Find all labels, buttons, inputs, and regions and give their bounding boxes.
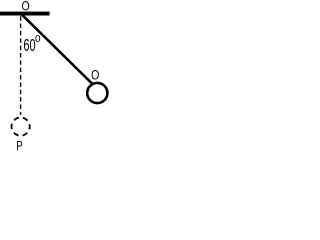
svg-text:O: O [21,0,29,14]
svg-text:0: 0 [35,34,41,45]
string (pendulum rod) [22,15,93,85]
dashed vertical line [20,16,22,115]
angle label 60 [23,36,35,55]
ball circle [87,83,107,103]
svg-text:O: O [91,67,99,83]
svg-text:P: P [16,139,22,154]
svg-text:60: 60 [23,36,35,55]
label P [16,139,22,154]
ceiling bar [0,12,50,16]
dashed circle P position [12,118,30,136]
superscript 0 (degree) [35,34,41,45]
label O (ball) [91,67,99,83]
label O (pivot) [21,0,29,14]
